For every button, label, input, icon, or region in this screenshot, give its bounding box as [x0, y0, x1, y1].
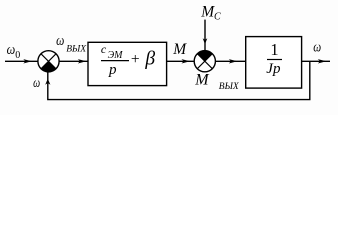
- wire summing2 to block2: [215, 60, 245, 62]
- node M_C label: [200, 4, 221, 23]
- svg-text:ω: ω: [7, 42, 16, 58]
- svg-text:ω: ω: [313, 40, 321, 56]
- wire output: [302, 60, 330, 62]
- node M_vyh label: [194, 72, 240, 93]
- svg-text:ω: ω: [33, 75, 40, 90]
- svg-text:p: p: [108, 62, 117, 78]
- svg-text:1: 1: [270, 40, 278, 59]
- wire feedback: [48, 61, 310, 99]
- summing junction 1: [38, 51, 59, 72]
- svg-text:β: β: [144, 48, 155, 69]
- wire block1 to summing2: [167, 60, 195, 62]
- wire summing1 to block1: [59, 60, 88, 62]
- svg-text:Jp: Jp: [266, 61, 281, 77]
- svg-text:M: M: [200, 4, 215, 21]
- svg-text:0: 0: [15, 50, 20, 61]
- wire input: [5, 60, 38, 62]
- svg-text:M: M: [172, 41, 187, 58]
- block W2 (1/Jp): [246, 37, 302, 89]
- svg-text:ЭМ: ЭМ: [108, 50, 124, 61]
- svg-text:ВЫХ: ВЫХ: [66, 44, 87, 54]
- node omega_vyh label: [56, 32, 87, 55]
- svg-text:ω: ω: [56, 32, 64, 49]
- block W1 (c_em/p + beta): [88, 42, 167, 86]
- svg-text:ВЫХ: ВЫХ: [219, 82, 240, 92]
- node omega0 input label: [7, 42, 21, 61]
- svg-text:c: c: [101, 42, 107, 56]
- svg-text:M: M: [194, 72, 210, 89]
- svg-text:C: C: [214, 12, 221, 23]
- wire M_C into summing2: [204, 20, 206, 51]
- summing junction 2: [194, 51, 215, 72]
- svg-text:+: +: [131, 51, 140, 68]
